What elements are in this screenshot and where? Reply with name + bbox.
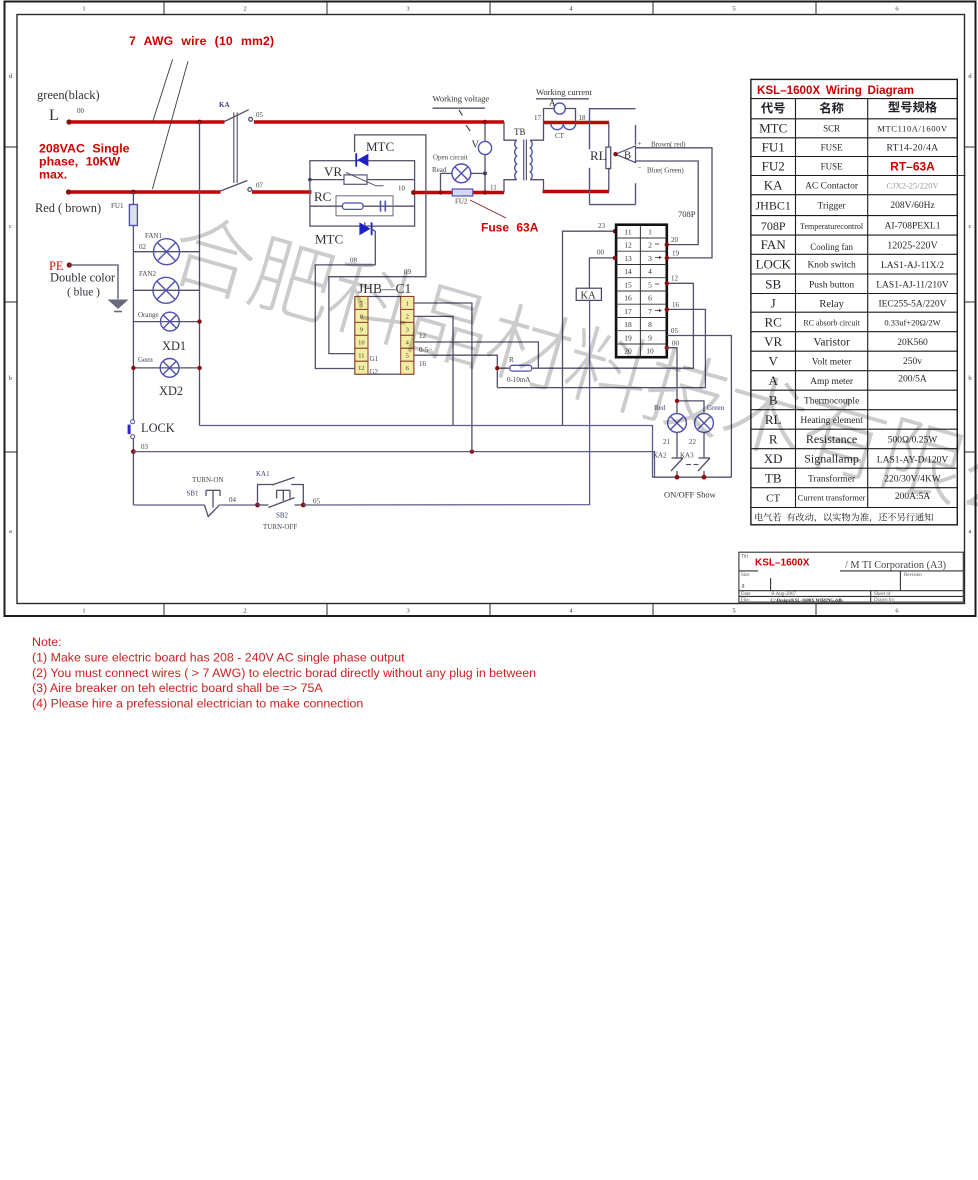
fan FAN1	[133, 232, 199, 265]
node dots on RC box	[308, 178, 312, 182]
svg-text:TURN-ON: TURN-ON	[192, 476, 224, 484]
svg-text:FU1: FU1	[111, 202, 124, 210]
svg-text:FU1: FU1	[762, 140, 785, 155]
svg-text:17: 17	[534, 114, 542, 122]
svg-text:XD1: XD1	[162, 339, 186, 353]
ground symbol	[108, 300, 129, 312]
svg-text:05: 05	[256, 111, 264, 119]
svg-text:L: L	[49, 107, 59, 124]
svg-text:15: 15	[624, 280, 632, 289]
svg-text:Relay: Relay	[819, 299, 844, 310]
relay contact KA2	[671, 458, 683, 477]
border ruler ticks bottom	[164, 604, 816, 617]
svg-text:20K560: 20K560	[897, 338, 928, 348]
svg-text:3: 3	[406, 608, 409, 615]
svg-text:LOCK: LOCK	[141, 421, 175, 435]
svg-text:Orange: Orange	[138, 311, 159, 319]
relay contact KA3	[698, 458, 710, 477]
ammeter A loop	[534, 98, 586, 123]
SCR MTC top	[356, 139, 394, 167]
svg-text:16: 16	[419, 360, 427, 368]
temperature controller connector 708P	[616, 176, 965, 358]
svg-text:TB: TB	[765, 471, 782, 486]
signal lamp Green (22/KA3)	[680, 404, 725, 460]
voltmeter V	[478, 141, 491, 154]
svg-text:11: 11	[624, 227, 631, 236]
svg-text:10: 10	[646, 347, 654, 356]
wire L phase red main (after KA contact)	[254, 120, 504, 124]
svg-text:FAN1: FAN1	[145, 232, 162, 240]
svg-text:CJX2-25/220V: CJX2-25/220V	[887, 181, 940, 191]
svg-text:9: 9	[360, 326, 363, 333]
svg-text:12: 12	[624, 241, 632, 250]
svg-text:RC: RC	[765, 315, 782, 330]
svg-text:MTC: MTC	[366, 139, 394, 154]
thermocouple B	[613, 146, 635, 163]
furnace bracket walls	[590, 109, 636, 205]
svg-text:05: 05	[671, 327, 679, 335]
svg-text:green(black): green(black)	[37, 88, 100, 102]
svg-text:Drawn by:: Drawn by:	[874, 598, 895, 603]
svg-text:VR: VR	[764, 334, 782, 349]
contactor KA pole 2	[221, 181, 252, 192]
border ruler letters right	[968, 73, 972, 535]
border ruler ticks left	[5, 147, 18, 452]
svg-text:5: 5	[732, 6, 735, 13]
svg-text:2: 2	[648, 241, 652, 250]
svg-text:20: 20	[671, 236, 679, 244]
border ruler ticks top	[164, 2, 816, 15]
wire N phase red main (RC box to TB)	[414, 191, 505, 195]
push button SB1 TURN-ON	[204, 490, 220, 516]
fuse FU2	[452, 189, 473, 196]
svg-text:A: A	[549, 98, 556, 108]
svg-text:12025-220V: 12025-220V	[887, 241, 938, 252]
svg-text:12: 12	[671, 275, 679, 283]
svg-text:07: 07	[256, 182, 264, 190]
SCR MTC bottom	[315, 222, 372, 246]
heating element RL	[590, 123, 611, 192]
svg-text:TURN-OFF: TURN-OFF	[263, 523, 297, 531]
svg-text:Temperaturecontrol: Temperaturecontrol	[800, 222, 864, 231]
svg-text:2: 2	[406, 313, 409, 320]
wire PE to ground	[69, 265, 118, 299]
border ruler letters left	[9, 73, 13, 535]
svg-text:6: 6	[648, 294, 652, 303]
svg-text:CT: CT	[766, 493, 780, 505]
svg-text:Fuse 63A: Fuse 63A	[481, 221, 539, 235]
svg-text:B: B	[624, 151, 631, 162]
svg-text:R: R	[769, 432, 778, 447]
svg-text:8: 8	[648, 320, 652, 329]
svg-text:(1) Make sure electric board h: (1) Make sure electric board has 208 - 2…	[32, 651, 405, 665]
svg-text:16: 16	[672, 301, 680, 309]
svg-text:FAN: FAN	[761, 237, 787, 252]
svg-text:14: 14	[624, 267, 632, 276]
table col1 designators	[756, 121, 792, 505]
svg-text:Red ( brown): Red ( brown)	[35, 201, 101, 215]
svg-text:12: 12	[358, 365, 365, 372]
transformer TB	[504, 122, 544, 193]
svg-text:KA3: KA3	[680, 452, 694, 460]
note text block	[32, 635, 536, 710]
wire start row to SB1	[133, 504, 204, 506]
svg-text:2: 2	[243, 6, 246, 13]
svg-text:0.33uf+20Ω/2W: 0.33uf+20Ω/2W	[884, 318, 940, 328]
svg-text:5: 5	[732, 608, 735, 615]
svg-text:(3) Aire breaker on teh electr: (3) Aire breaker on teh electric board s…	[32, 681, 323, 695]
svg-text:19: 19	[672, 250, 680, 258]
wire thermocouple + Brown	[636, 148, 713, 258]
svg-text:5: 5	[406, 352, 409, 359]
wire JHB pin4 net12	[414, 342, 539, 368]
svg-text:11: 11	[490, 184, 497, 192]
wire net16 to 708P pin7	[497, 309, 705, 387]
svg-text:Knob switch: Knob switch	[807, 261, 856, 271]
junction N to FU1	[131, 190, 136, 195]
wire net05 pin9 to lamp rail	[667, 336, 732, 478]
svg-text:Volt meter: Volt meter	[812, 358, 853, 368]
svg-text:18: 18	[624, 320, 632, 329]
svg-text:c: c	[9, 223, 12, 230]
push button SB2 TURN-OFF	[258, 490, 304, 507]
svg-text:/ M TI Corporation (A3): / M TI Corporation (A3)	[845, 560, 946, 571]
svg-text:208V/60Hz: 208V/60Hz	[890, 201, 934, 211]
svg-text:03: 03	[141, 443, 149, 451]
table bottom chinese note	[755, 513, 933, 523]
svg-text:208VAC Single: 208VAC Single	[39, 142, 130, 156]
svg-text:R: R	[509, 356, 514, 364]
svg-text:Trigger: Trigger	[818, 202, 847, 212]
junction 03 JHB pin1	[470, 449, 474, 453]
svg-text:Working voltage: Working voltage	[433, 94, 490, 104]
voltmeter V branch wire	[484, 122, 486, 142]
svg-text:Sheet of: Sheet of	[874, 592, 891, 597]
svg-text:LAS1-AJ-11/210V: LAS1-AJ-11/210V	[876, 280, 949, 290]
svg-text:Note:: Note:	[32, 635, 62, 649]
svg-text:RC: RC	[314, 189, 331, 204]
svg-text:FU2: FU2	[762, 159, 785, 174]
svg-text:708P: 708P	[761, 219, 786, 233]
svg-text:10: 10	[398, 185, 406, 193]
svg-text:0-10mA: 0-10mA	[507, 376, 530, 384]
svg-text:−: −	[638, 164, 642, 172]
wire N phase red main (after KA contact to RC box)	[252, 190, 312, 194]
RC absorb module	[310, 196, 415, 216]
knob switch LOCK	[128, 420, 175, 439]
svg-text:02: 02	[139, 243, 147, 251]
current transformer CT	[551, 124, 576, 141]
svg-text:18: 18	[579, 114, 587, 122]
fuse FU1	[129, 205, 137, 226]
svg-text:16: 16	[624, 294, 632, 303]
svg-text:11: 11	[358, 352, 364, 359]
svg-text:b: b	[9, 375, 12, 382]
svg-text:KSL–1600X: KSL–1600X	[755, 558, 810, 569]
svg-text:G2: G2	[370, 368, 379, 376]
svg-text:21: 21	[663, 438, 671, 446]
svg-text:00: 00	[597, 249, 605, 257]
wire net00 pin13 to KA coil	[589, 258, 615, 288]
signal lamp XD2	[131, 356, 202, 398]
svg-text:(2) You must connect wires ( >: (2) You must connect wires ( > 7 AWG) to…	[32, 666, 536, 680]
svg-text:13: 13	[624, 254, 632, 263]
signal lamp XD1	[133, 311, 201, 353]
svg-text:Date: Date	[741, 592, 751, 597]
wire net12 to 708P pin5	[538, 283, 693, 368]
svg-text:708P: 708P	[678, 209, 696, 219]
svg-text:( blue ): ( blue )	[67, 287, 100, 299]
svg-text:V: V	[472, 140, 480, 151]
wire JHB pin2 to net23 rail	[414, 316, 453, 425]
MTC gate loop wire	[329, 135, 426, 354]
wire TB secondary bottom red	[543, 190, 610, 194]
junction L to fan rail	[197, 120, 202, 125]
svg-text:phase, 10KW: phase, 10KW	[39, 155, 120, 169]
svg-text:ON/OFF Show: ON/OFF Show	[664, 490, 717, 500]
svg-text:8-Aug-2007: 8-Aug-2007	[772, 592, 797, 597]
svg-text:Double color: Double color	[50, 271, 116, 285]
pin net dots right side	[665, 242, 669, 246]
sheet outer border frame	[5, 2, 976, 617]
resistor R 0-10mA	[495, 356, 538, 384]
svg-text:Cooling fan: Cooling fan	[810, 242, 853, 252]
svg-text:1: 1	[648, 227, 652, 236]
varistor VR	[310, 173, 415, 186]
wire LOCK to 03	[132, 439, 134, 505]
svg-text:(4) Please hire a prefessional: (4) Please hire a prefessional electrici…	[32, 696, 363, 710]
svg-text:SB2: SB2	[276, 512, 289, 520]
contactor coil KA	[576, 288, 601, 301]
svg-text:3: 3	[406, 6, 409, 13]
svg-text:Current transformer: Current transformer	[798, 493, 866, 503]
svg-text:19: 19	[624, 333, 632, 342]
contactor KA pole 1	[225, 110, 253, 122]
watermark company text	[167, 209, 978, 551]
sheet inner border frame	[17, 15, 965, 604]
wire L phase red main (left segment)	[69, 120, 225, 124]
svg-text:C:\Design\KSL-1600X WIRING.ddb: C:\Design\KSL-1600X WIRING.ddb	[771, 597, 844, 602]
svg-text:KA: KA	[219, 101, 230, 109]
wire 05 row to KA coil	[303, 300, 589, 505]
svg-text:3: 3	[406, 326, 409, 333]
svg-text:AI-708PEXL1: AI-708PEXL1	[885, 221, 941, 231]
svg-text:Blue( Green): Blue( Green)	[647, 167, 684, 175]
svg-text:File:: File:	[741, 598, 750, 603]
svg-text:CT: CT	[555, 132, 565, 140]
JHB-C1 left pins 7-12	[355, 297, 368, 375]
border ruler ticks right	[965, 147, 977, 452]
border ruler numbers top	[82, 6, 899, 13]
svg-text:+: +	[638, 140, 642, 148]
svg-text:1: 1	[406, 301, 409, 308]
svg-text:MTC110A/1600V: MTC110A/1600V	[877, 124, 948, 134]
svg-text:FU2: FU2	[455, 198, 468, 206]
svg-text:1: 1	[82, 608, 85, 615]
svg-text:LOCK: LOCK	[756, 257, 792, 272]
wire SB1 to KA1 node	[220, 504, 257, 506]
svg-text:00: 00	[672, 340, 680, 348]
svg-text:J: J	[771, 295, 776, 310]
table col3 specs	[876, 124, 949, 503]
svg-text:RT14-20/4A: RT14-20/4A	[887, 144, 939, 154]
svg-text:2: 2	[243, 608, 246, 615]
wire thermocouple - Blue	[636, 161, 699, 245]
svg-text:RT–63A: RT–63A	[890, 160, 935, 174]
title block frame	[739, 552, 963, 602]
svg-text:RL: RL	[590, 148, 607, 163]
wire N phase red main (left segment)	[69, 190, 221, 194]
svg-text:SB1: SB1	[187, 490, 200, 498]
svg-text:XD: XD	[764, 451, 783, 466]
svg-text:Open circuit: Open circuit	[433, 154, 468, 162]
pointer dashes to V	[459, 110, 463, 116]
wire JHB pin5 net16	[414, 355, 498, 387]
table col2 names	[798, 124, 866, 503]
svg-text:7: 7	[648, 307, 652, 316]
svg-text:TB: TB	[514, 127, 526, 137]
relay contact KA1 (holding)	[258, 477, 304, 505]
svg-text:5: 5	[648, 280, 652, 289]
annotation 208VAC	[39, 142, 130, 182]
RC snubber box outline	[310, 161, 415, 226]
svg-text:a: a	[969, 528, 972, 535]
wire net00 pin10 to lamps	[667, 348, 677, 414]
svg-text:KA2: KA2	[653, 452, 667, 460]
svg-text:Varistor: Varistor	[813, 337, 850, 349]
svg-text:LAS1-AJ-11X/2: LAS1-AJ-11X/2	[881, 261, 944, 271]
svg-text:Amp meter: Amp meter	[810, 377, 854, 387]
JHB-C1 right pins 1-6	[401, 297, 414, 375]
node 03	[131, 449, 136, 454]
component table frame	[751, 79, 957, 524]
svg-text:KA1: KA1	[256, 470, 270, 478]
svg-text:c: c	[969, 223, 972, 230]
svg-text:KA: KA	[764, 178, 783, 193]
wire fan rail left (from N via FU1)	[132, 192, 134, 205]
svg-text:Brown( red): Brown( red)	[651, 141, 686, 149]
pointer line to L wire	[153, 59, 173, 121]
svg-text:10: 10	[358, 339, 365, 346]
svg-text:max.: max.	[39, 168, 67, 182]
svg-text:XD2: XD2	[159, 384, 183, 398]
wire fan rail right (from L junction)	[199, 122, 201, 426]
wire net23 from 708P	[563, 231, 615, 425]
svg-text:SCR: SCR	[823, 124, 840, 134]
wire TB secondary top red	[544, 121, 610, 125]
svg-text:Revision: Revision	[904, 573, 922, 578]
wire net 03	[133, 452, 654, 478]
svg-text:MTC: MTC	[759, 121, 787, 136]
svg-text:a: a	[9, 528, 12, 535]
svg-text:FUSE: FUSE	[821, 162, 844, 172]
title block texts	[741, 555, 922, 604]
pointer line to N wire	[152, 61, 188, 189]
table header row	[761, 102, 785, 113]
svg-text:9: 9	[648, 333, 652, 342]
svg-text:JHBC1: JHBC1	[756, 199, 791, 213]
svg-text:AC Contactor: AC Contactor	[805, 182, 859, 192]
svg-text:4: 4	[648, 267, 652, 276]
svg-text:SB: SB	[765, 276, 781, 291]
svg-text:7 AWG wire (10 mm2): 7 AWG wire (10 mm2)	[129, 34, 274, 48]
svg-text:MTC: MTC	[315, 232, 343, 247]
fan FAN2	[133, 270, 199, 303]
svg-text:04: 04	[229, 496, 237, 504]
signal lamp Red (21/KA2)	[653, 404, 686, 460]
svg-text:V: V	[769, 354, 779, 369]
wire net23 long rail	[200, 426, 653, 478]
border ruler numbers bottom	[82, 608, 899, 615]
svg-text:17: 17	[624, 307, 632, 316]
svg-text:22: 22	[689, 438, 697, 446]
svg-text:G1: G1	[370, 355, 379, 363]
lamp Open circuit Read	[432, 154, 487, 195]
svg-text:Titl: Titl	[741, 555, 749, 560]
wire JHB pin1 to net03	[414, 303, 472, 452]
linkage dashes KA2-KA3	[686, 464, 691, 466]
svg-text:1: 1	[82, 6, 85, 13]
svg-text:23: 23	[598, 222, 606, 230]
svg-text:Working current: Working current	[536, 87, 592, 97]
svg-text:Size: Size	[741, 573, 750, 578]
svg-text:RC absorb circuit: RC absorb circuit	[803, 319, 860, 328]
wire lamp bottom rail	[653, 476, 732, 478]
svg-text:VR: VR	[324, 164, 342, 179]
svg-text:Geen: Geen	[138, 356, 153, 364]
wire SCR bottom to JHB G2	[364, 222, 366, 226]
svg-text:KSL–1600X Wiring Diagram: KSL–1600X Wiring Diagram	[757, 84, 914, 97]
svg-text:Push button: Push button	[809, 280, 854, 290]
svg-text:KA: KA	[581, 291, 597, 302]
trigger block JHB-C1	[355, 281, 414, 374]
svg-text:3: 3	[648, 254, 652, 263]
svg-text:b: b	[968, 375, 971, 382]
svg-text:IEC255-5A/220V: IEC255-5A/220V	[878, 299, 946, 309]
svg-text:200/5A: 200/5A	[898, 375, 927, 385]
svg-text:00: 00	[77, 107, 85, 115]
svg-text:250v: 250v	[903, 357, 922, 367]
pointer Fuse 63A	[470, 200, 506, 218]
svg-text:05: 05	[313, 498, 321, 506]
svg-text:FAN2: FAN2	[139, 270, 156, 278]
contactor KA linkage bars	[234, 113, 237, 184]
svg-text:FUSE: FUSE	[821, 143, 844, 153]
